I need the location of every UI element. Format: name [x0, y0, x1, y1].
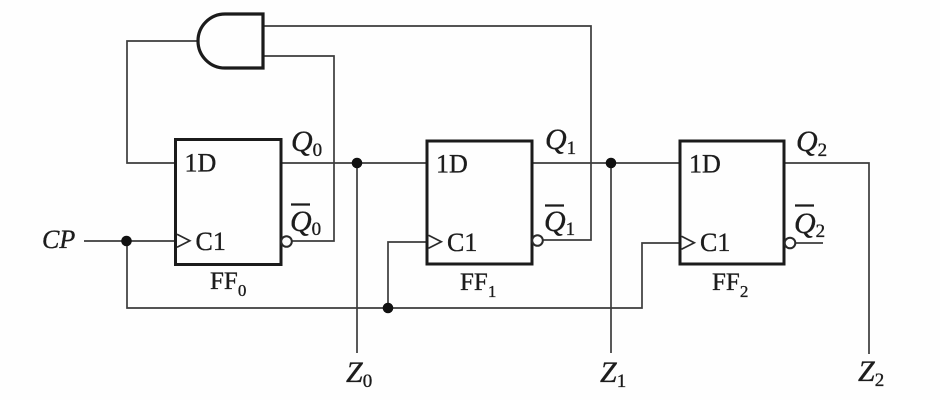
svg-text:FF0: FF0 [210, 268, 246, 300]
svg-text:1D: 1D [185, 149, 217, 178]
flip-flop FF0 box [176, 140, 282, 265]
wire: clock branch up to FF1 C1 [388, 242, 427, 308]
flip-flop FF0 clock triangle [177, 234, 190, 247]
junction dot on clock bus (FF1 branch) [383, 303, 394, 314]
svg-text:Q1: Q1 [545, 123, 576, 159]
flip-flop FF1 clock triangle [429, 235, 442, 248]
flip-flop FF0 Q0bar bubble [281, 236, 292, 247]
label Q0bar overbar [291, 203, 310, 205]
flip-flop FF1 Q1bar bubble [532, 235, 543, 246]
svg-text:CP: CP [42, 225, 75, 254]
wire: Z1 drop [610, 163, 612, 353]
label Q1bar overbar [545, 204, 564, 206]
svg-text:Q2: Q2 [794, 207, 825, 242]
svg-text:Z2: Z2 [858, 355, 884, 391]
svg-text:Z1: Z1 [600, 356, 626, 392]
wire: AND top input from Q1bar (long top run) [263, 26, 591, 240]
svg-text:Q0: Q0 [291, 125, 322, 161]
flip-flop FF2 box [680, 141, 784, 264]
AND gate U1 [198, 14, 263, 68]
flip-flop FF2 clock triangle [682, 236, 695, 249]
wire: Q2bar stub [796, 242, 823, 244]
svg-text:FF1: FF1 [460, 269, 496, 301]
svg-text:C1: C1 [700, 228, 730, 257]
wire: Q0 to FF1 1D [281, 162, 427, 164]
flip-flop FF2 Q2bar bubble [785, 238, 796, 249]
svg-text:Q1: Q1 [544, 205, 575, 240]
svg-text:Q0: Q0 [290, 205, 321, 240]
flip-flop FF1 box [427, 141, 532, 264]
junction dot on CP line [121, 236, 132, 247]
wire: AND bottom input from Q0bar [263, 56, 334, 241]
label Q2bar overbar [795, 204, 814, 206]
svg-text:Q2: Q2 [796, 125, 827, 161]
wire: CP input to FF0 C1 [84, 240, 176, 242]
svg-text:Z0: Z0 [346, 356, 372, 392]
junction dot on Q0 line (Z0 tap) [352, 158, 363, 169]
wire: Q1 to FF2 1D [532, 162, 680, 164]
wire: clock bus from CP junction down and right to FF2 C1 [127, 241, 680, 308]
wire: AND output to FF0 1D [127, 41, 198, 163]
svg-text:1D: 1D [689, 150, 721, 179]
svg-text:1D: 1D [436, 150, 468, 179]
svg-text:C1: C1 [196, 227, 226, 256]
wire: Z0 drop [356, 163, 358, 353]
wire: Q2 out and Z2 drop [784, 163, 869, 354]
junction dot on Q1 line (Z1 tap) [606, 158, 617, 169]
svg-text:FF2: FF2 [712, 269, 748, 301]
svg-text:C1: C1 [447, 228, 477, 257]
